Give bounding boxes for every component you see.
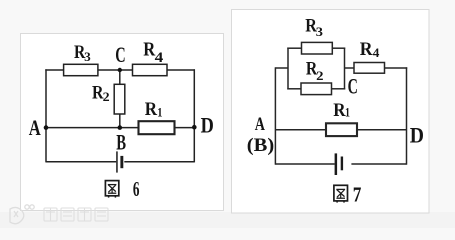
svg-text:2: 2: [103, 89, 110, 104]
svg-text:A: A: [255, 114, 265, 135]
wire parallel block left bar: [287, 48, 289, 90]
svg-text:R: R: [333, 100, 346, 121]
wire R2 branch top (C to R2): [119, 70, 121, 84]
svg-text:(B): (B): [247, 135, 274, 156]
svg-text:4: 4: [373, 45, 380, 60]
wire R2 lead left: [287, 88, 301, 90]
svg-text:R: R: [145, 99, 158, 120]
battery long plate (fig 7): [335, 153, 338, 175]
svg-text:4: 4: [155, 50, 164, 66]
wire middle segment R1 to D: [357, 129, 407, 131]
wire left vertical (A branch): [45, 69, 47, 162]
wire C to R4: [345, 67, 355, 69]
watermark logo bottom-left: [10, 205, 34, 224]
wire bottom segment left of battery: [46, 161, 116, 163]
caption glyph "tu" (fig 7) drawn as box character: [334, 185, 348, 202]
label R3: [74, 42, 91, 64]
watermark text: [44, 208, 108, 221]
resistor R2: [301, 83, 332, 95]
battery short plate (fig 6): [120, 156, 123, 168]
wire middle segment A to R1: [46, 127, 139, 129]
svg-text:A: A: [29, 115, 41, 140]
node B junction dot: [118, 125, 123, 130]
node D junction dot: [192, 125, 197, 130]
svg-text:1: 1: [157, 105, 162, 120]
resistor R2: [114, 84, 125, 114]
resistor R4: [354, 63, 385, 74]
svg-text:R: R: [360, 39, 373, 60]
wire bottom segment right of battery: [124, 161, 194, 163]
caption glyph "tu" (fig 6) drawn as box character: [105, 181, 118, 198]
resistor R4: [133, 64, 168, 75]
resistor R1: [139, 121, 175, 134]
svg-text:3: 3: [316, 24, 324, 39]
battery long plate (fig 6): [116, 151, 118, 172]
wire bottom segment left of battery: [275, 163, 334, 165]
wire top segment R3 to C to R4: [98, 69, 133, 71]
label R4: [143, 38, 163, 65]
label R1: [333, 100, 350, 121]
svg-text:D: D: [410, 123, 424, 148]
wire outer left vertical: [274, 67, 276, 164]
label R4: [360, 39, 380, 60]
label R2: [92, 83, 110, 105]
wire R3 lead right: [332, 47, 345, 49]
svg-text:C: C: [348, 74, 358, 99]
battery short plate (fig 7): [341, 157, 343, 171]
svg-text:7: 7: [353, 183, 362, 207]
wire R3 lead left: [287, 47, 301, 49]
wire outer right vertical: [406, 67, 408, 164]
svg-text:1: 1: [345, 105, 350, 120]
node C junction dot: [118, 68, 122, 72]
wire parallel block right bar: [344, 48, 346, 90]
svg-text:6: 6: [133, 177, 140, 201]
wire R2 branch bottom (R2 to B): [119, 114, 121, 128]
wire top segment right of R4: [167, 69, 195, 71]
wire bottom segment right of battery: [351, 163, 406, 165]
svg-text:2: 2: [316, 68, 323, 83]
svg-text:3: 3: [84, 49, 91, 64]
wire middle segment A to R1: [275, 129, 326, 131]
resistor R1: [326, 123, 357, 136]
svg-text:C: C: [115, 42, 125, 67]
label R1: [145, 99, 163, 120]
label R3: [305, 16, 323, 40]
svg-text:B: B: [116, 130, 126, 155]
wire R4 to right rail: [385, 67, 408, 69]
label R2: [306, 58, 324, 82]
resistor R3: [64, 64, 98, 75]
svg-text:D: D: [201, 112, 214, 137]
wire R2 lead right: [332, 88, 346, 90]
wire middle segment R1 to D: [175, 127, 195, 129]
resistor R3: [302, 42, 333, 54]
wire stub to parallel block: [275, 67, 288, 69]
wire top segment left of R3: [45, 69, 63, 71]
wire right vertical (D branch): [193, 69, 195, 162]
node A junction dot: [44, 125, 49, 130]
